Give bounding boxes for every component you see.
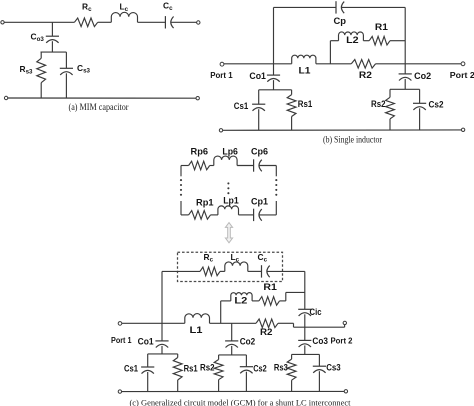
svg-text:Rp6: Rp6 — [191, 146, 209, 156]
svg-text:Rc: Rc — [204, 252, 214, 264]
svg-text:Cp: Cp — [334, 16, 347, 26]
svg-text:(b) Single inductor: (b) Single inductor — [323, 135, 382, 145]
svg-text:Rs2: Rs2 — [371, 99, 386, 109]
svg-text:Rs1: Rs1 — [298, 99, 313, 109]
svg-text:Co2: Co2 — [240, 336, 256, 346]
svg-text:Rs1: Rs1 — [184, 363, 198, 373]
svg-text:Port 2: Port 2 — [450, 70, 474, 80]
svg-text:Cc: Cc — [258, 252, 268, 264]
svg-text:Cp6: Cp6 — [251, 147, 268, 157]
svg-text:(a) MIM capacitor: (a) MIM capacitor — [69, 102, 129, 112]
svg-text:Rs2: Rs2 — [200, 363, 215, 373]
svg-text:Co1: Co1 — [138, 336, 154, 346]
svg-text:Co3: Co3 — [31, 31, 45, 43]
svg-text:Port 2: Port 2 — [331, 335, 353, 345]
svg-text:(c) Generalized circuit model: (c) Generalized circuit model (GCM) for … — [130, 397, 352, 406]
svg-text:R1: R1 — [263, 282, 277, 292]
svg-text:L2: L2 — [234, 296, 247, 306]
svg-text:Co3: Co3 — [312, 336, 328, 346]
svg-text:Lp6: Lp6 — [222, 147, 238, 157]
svg-text:Port 1: Port 1 — [210, 70, 233, 80]
svg-text:R1: R1 — [375, 22, 388, 32]
svg-text:Rs3: Rs3 — [274, 362, 288, 372]
svg-text:Cs2: Cs2 — [429, 100, 444, 110]
svg-text:Cp1: Cp1 — [251, 197, 268, 207]
svg-text:Co1: Co1 — [249, 71, 266, 81]
svg-text:Rp1: Rp1 — [196, 198, 214, 208]
svg-text:R2: R2 — [260, 327, 273, 337]
svg-text:Lc: Lc — [231, 252, 240, 264]
svg-text:L2: L2 — [346, 35, 359, 45]
svg-text:Cic: Cic — [310, 307, 322, 317]
svg-text:Cs1: Cs1 — [124, 363, 138, 373]
svg-text:Cs3: Cs3 — [77, 63, 91, 75]
svg-text:Co2: Co2 — [414, 71, 431, 81]
svg-text:L1: L1 — [190, 325, 203, 335]
svg-text:Lc: Lc — [120, 1, 129, 13]
svg-text:Cs2: Cs2 — [253, 363, 267, 373]
svg-text:Lp1: Lp1 — [223, 195, 239, 205]
svg-text:R2: R2 — [359, 70, 372, 80]
svg-text:Cs3: Cs3 — [326, 363, 341, 373]
svg-text:Port 1: Port 1 — [111, 335, 132, 345]
svg-text:Cs1: Cs1 — [234, 101, 249, 111]
svg-text:Cc: Cc — [163, 0, 173, 12]
svg-text:L1: L1 — [299, 66, 311, 76]
svg-text:Rc: Rc — [82, 1, 92, 13]
svg-text:Rs3: Rs3 — [20, 64, 34, 76]
